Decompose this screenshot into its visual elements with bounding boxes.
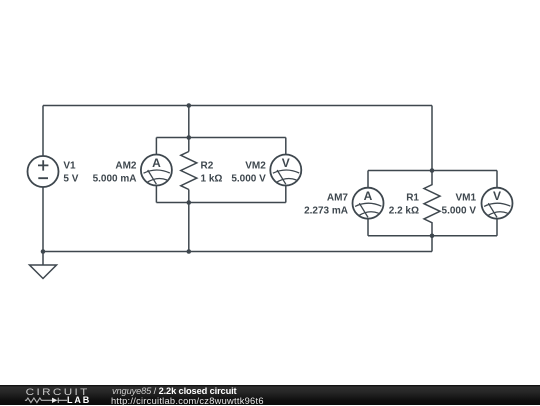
voltmeter VM1 [482, 188, 513, 219]
svg-text:5 V: 5 V [63, 174, 78, 185]
svg-text:VM1: VM1 [455, 193, 476, 204]
CircuitLab logo [0, 385, 110, 405]
wire V1 top lead [42, 106, 44, 157]
junction right box bottom / R1 branch [430, 234, 435, 239]
svg-text:5.000 V: 5.000 V [442, 206, 477, 217]
wire VM2 leads [285, 138, 287, 203]
svg-text:LAB: LAB [67, 395, 91, 405]
svg-text:2.273 mA: 2.273 mA [304, 206, 348, 217]
svg-text:5.000 mA: 5.000 mA [93, 174, 137, 185]
voltage source V1 [28, 156, 59, 187]
wire right riser to bottom rail [431, 236, 433, 252]
svg-text:AM7: AM7 [327, 193, 349, 204]
svg-text:V: V [282, 156, 290, 170]
ground [30, 252, 57, 279]
svg-text:2.2 kΩ: 2.2 kΩ [389, 206, 419, 217]
svg-text:A: A [364, 189, 373, 203]
svg-text:1 kΩ: 1 kΩ [201, 174, 223, 185]
svg-text:AM2: AM2 [115, 161, 137, 172]
wire left box top edge [156, 137, 285, 139]
ammeter AM7 [353, 188, 384, 219]
voltmeter VM2 [270, 155, 301, 186]
footer text [112, 386, 237, 396]
svg-text:5.000 V: 5.000 V [231, 174, 266, 185]
wire right drop from top rail [431, 106, 433, 171]
wire VM1 leads [496, 171, 498, 236]
junction right box top / R1 branch [430, 168, 435, 173]
svg-text:R2: R2 [201, 161, 214, 172]
wire AM2 leads [155, 138, 157, 203]
wire R2 branch lower [188, 190, 190, 252]
wire R2 branch upper [188, 106, 190, 152]
footer bar [0, 385, 540, 405]
svg-text:R1: R1 [406, 193, 419, 204]
wire left box bottom edge [156, 202, 285, 204]
resistor R2 [181, 152, 197, 190]
svg-text:VM2: VM2 [245, 161, 266, 172]
wire AM7 leads [367, 171, 369, 236]
resistor R1 [424, 171, 440, 236]
junction bottom rail / ground [41, 249, 46, 254]
svg-text:V1: V1 [63, 161, 76, 172]
junction bottom rail / R2 branch [187, 249, 192, 254]
svg-text:A: A [152, 156, 161, 170]
wire bottom rail (net GND) [43, 251, 432, 253]
svg-text:V: V [493, 189, 501, 203]
wire top rail (net V+) [43, 105, 432, 107]
wire right box top edge [368, 170, 497, 172]
wire V1 bottom lead [42, 187, 44, 252]
ammeter AM2 [141, 155, 172, 186]
junction left box top / R2 branch [187, 135, 192, 140]
wire right box bottom edge [368, 235, 497, 237]
junction top rail / R2 branch [187, 103, 192, 108]
junction left box bottom / R2 branch [187, 200, 192, 205]
